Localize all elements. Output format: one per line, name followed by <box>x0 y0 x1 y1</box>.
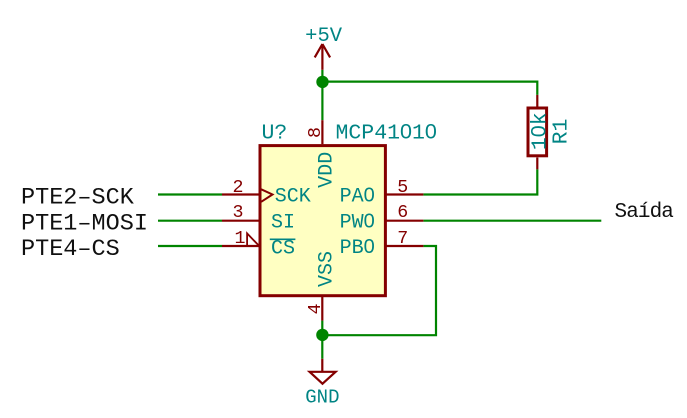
svg-text:SI: SI <box>271 212 295 235</box>
svg-text:VDD: VDD <box>316 152 339 188</box>
svg-text:PA0: PA0 <box>340 184 375 208</box>
svg-text:3: 3 <box>233 203 244 223</box>
svg-text:6: 6 <box>397 203 408 223</box>
svg-text:PB0: PB0 <box>340 236 375 260</box>
svg-text:MCP41010: MCP41010 <box>336 119 437 145</box>
svg-text:U?: U? <box>262 121 288 145</box>
svg-text:GND: GND <box>305 386 339 408</box>
svg-text:PTE1–MOSI: PTE1–MOSI <box>21 211 148 238</box>
svg-text:8: 8 <box>306 127 326 138</box>
svg-text:4: 4 <box>306 303 326 314</box>
svg-text:10k: 10k <box>526 112 552 150</box>
svg-text:CS: CS <box>271 237 295 260</box>
svg-text:VSS: VSS <box>316 251 339 287</box>
svg-text:+5V: +5V <box>305 25 343 48</box>
svg-text:PTE2–SCK: PTE2–SCK <box>21 185 135 212</box>
svg-text:SCK: SCK <box>275 185 311 208</box>
svg-text:2: 2 <box>233 178 244 198</box>
svg-text:R1: R1 <box>550 119 574 145</box>
svg-text:5: 5 <box>397 178 408 198</box>
svg-text:1: 1 <box>235 229 246 249</box>
svg-text:Saída: Saída <box>615 201 674 224</box>
svg-text:PW0: PW0 <box>340 211 375 235</box>
svg-text:7: 7 <box>397 229 408 249</box>
svg-text:PTE4–CS: PTE4–CS <box>21 236 120 263</box>
